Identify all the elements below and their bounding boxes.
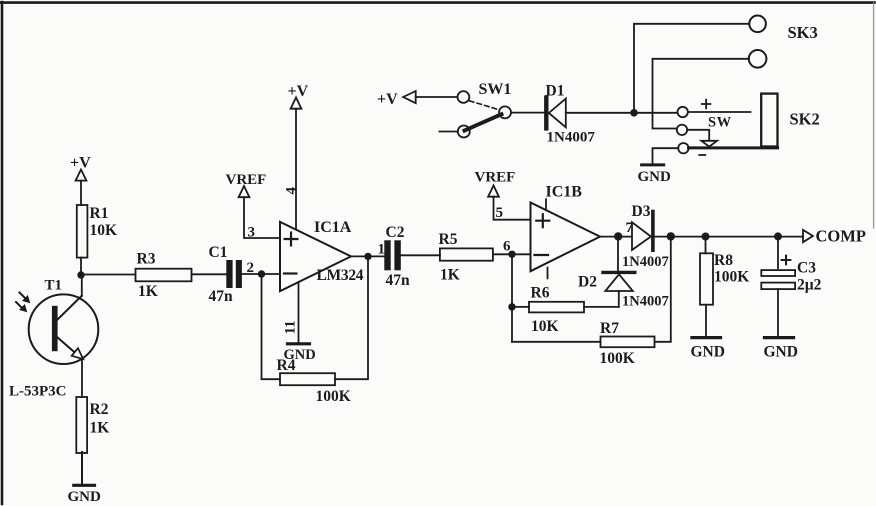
resistor R8 (700, 252, 749, 305)
ground (IC1A pin 11) (284, 344, 316, 363)
svg-text:1K: 1K (440, 267, 460, 284)
svg-text:2µ2: 2µ2 (797, 277, 822, 294)
svg-text:R7: R7 (600, 320, 619, 337)
svg-text:IC1B: IC1B (546, 184, 583, 201)
wire feedback down from pin2 node (262, 274, 281, 379)
plus pin label (702, 100, 711, 109)
node R8 junction (702, 233, 710, 241)
wire +V to SW1 (416, 96, 458, 98)
minus pin label (699, 154, 705, 156)
wire pin6 node down (511, 254, 513, 341)
node IC1A output (364, 253, 371, 260)
svg-text:R4: R4 (277, 357, 296, 374)
node junction (R1/R3/T1) (77, 271, 84, 278)
svg-text:LM324: LM324 (317, 267, 364, 284)
wire C1 to op-amp pin 2 (242, 273, 280, 275)
wire to R6 (512, 306, 529, 308)
capacitor C2 (384, 224, 410, 289)
connector SK2 body (761, 94, 777, 147)
diode D1 (546, 83, 596, 146)
capacitor C3 (polarized) (761, 256, 821, 294)
resistor R2 (76, 397, 109, 453)
wire D2 to R6 (618, 291, 620, 307)
wire VREF to pin 3 (244, 197, 280, 238)
svg-text:T1: T1 (45, 278, 63, 294)
wire stub SW1 lower contact (439, 131, 457, 133)
svg-text:GND: GND (638, 169, 672, 185)
resistor R6 (529, 285, 584, 336)
wire R2 to ground (81, 452, 83, 484)
svg-text:C3: C3 (797, 260, 816, 277)
resistor R5 (439, 231, 493, 284)
wire R7 up to output line (655, 237, 671, 342)
resistor R4 (277, 357, 351, 405)
svg-text:SK3: SK3 (788, 23, 818, 42)
transistor T1 (phototransistor) (29, 278, 99, 365)
contact plus pin circle (678, 107, 688, 117)
wire SW pin (687, 130, 709, 141)
svg-text:L-53P3C: L-53P3C (9, 384, 67, 400)
wire minus pin to ground (653, 148, 679, 163)
wire output to C2 (351, 255, 384, 257)
contact minus pin circle (678, 143, 688, 153)
svg-text:SW: SW (708, 115, 732, 131)
diode D2 (578, 272, 669, 309)
svg-text:5: 5 (496, 205, 504, 221)
connector SK3 pin 1 (749, 15, 766, 32)
svg-text:100K: 100K (600, 350, 635, 367)
svg-text:SK2: SK2 (790, 110, 820, 129)
svg-text:R3: R3 (137, 251, 156, 268)
wire SK3 pin2 to SK2 SW pin (653, 59, 749, 129)
svg-text:R5: R5 (439, 231, 458, 248)
op-amp U2 IC1B (531, 184, 601, 279)
node R6 junction (508, 303, 515, 310)
svg-text:100K: 100K (714, 269, 749, 286)
ground (C3) (764, 338, 798, 361)
wire R5 to pin 6 (493, 253, 531, 255)
wire R8 to ground (705, 305, 707, 337)
svg-text:C1: C1 (209, 244, 228, 261)
wire R3 to C1 (192, 273, 227, 275)
svg-text:GND: GND (68, 489, 102, 505)
svg-text:C2: C2 (386, 224, 405, 241)
node C3 junction (774, 232, 782, 240)
wire R6 to D2 (584, 306, 619, 308)
node pin2 junction (258, 270, 265, 277)
svg-text:3: 3 (248, 225, 256, 241)
svg-text:VREF: VREF (475, 170, 516, 186)
wire D3 to node (653, 236, 670, 238)
svg-text:COMP: COMP (816, 227, 866, 246)
svg-text:D3: D3 (632, 203, 651, 220)
svg-text:D2: D2 (578, 274, 597, 291)
node IC1B output (614, 232, 622, 240)
wire minus line (bold) to SK2 (689, 146, 778, 149)
border frame right (faint) (873, 3, 875, 228)
switch SW1 (458, 81, 512, 138)
svg-text:R2: R2 (90, 401, 109, 418)
capacitor C1 (209, 244, 242, 305)
svg-text:GND: GND (691, 344, 725, 361)
wire output node to D2 (617, 237, 619, 271)
wire pin 11 (298, 282, 300, 342)
svg-text:R1: R1 (90, 205, 109, 222)
wire C2 to R5 (401, 254, 440, 256)
svg-text:47n: 47n (386, 272, 411, 289)
border frame left (1, 2, 4, 504)
wire C3 to ground (777, 289, 779, 336)
wire node to R3 (81, 274, 136, 276)
svg-text:SW1: SW1 (479, 81, 512, 98)
ground (R8) (691, 338, 725, 361)
plug tip marker (open triangle) (701, 141, 717, 147)
node COMP output (803, 227, 866, 246)
resistor R7 (600, 320, 655, 367)
node +V (left supply) (70, 155, 91, 181)
svg-text:GND: GND (764, 344, 798, 361)
wire VREF to pin 5 (494, 197, 531, 220)
node VREF (IC1B) (475, 170, 516, 197)
node after D3 (667, 232, 675, 240)
svg-text:1: 1 (378, 242, 386, 258)
op-amp U1 IC1A (280, 219, 364, 291)
contact SW pin circle (677, 125, 687, 135)
svg-text:IC1A: IC1A (314, 219, 352, 236)
svg-text:11: 11 (283, 320, 299, 334)
svg-text:R8: R8 (714, 252, 733, 269)
svg-text:R6: R6 (531, 285, 550, 302)
wire plus pin to SK2 (688, 111, 751, 113)
resistor R3 (136, 251, 192, 301)
node +V (switch feed) (377, 91, 416, 108)
svg-text:+V: +V (377, 91, 398, 108)
wire node to C3 (777, 237, 779, 269)
svg-text:10K: 10K (531, 318, 559, 335)
wire R4 to output node (335, 256, 368, 379)
svg-text:4: 4 (284, 187, 300, 195)
ground (SK2) (638, 165, 672, 185)
wire R1 to node (80, 258, 82, 275)
svg-text:D1: D1 (546, 83, 565, 100)
node VREF (IC1A) (226, 172, 267, 197)
wire SW1 pole to D1 (511, 112, 544, 114)
connector SK3 pin 2 (749, 50, 767, 68)
wire IC1B output (600, 236, 631, 238)
node +V (IC1A pin 4) (288, 83, 309, 109)
wire node up to SK3 (634, 24, 749, 113)
svg-text:+V: +V (288, 83, 309, 100)
svg-text:VREF: VREF (226, 172, 267, 188)
svg-text:10K: 10K (90, 222, 118, 239)
wire main output line (670, 236, 803, 238)
diode D3 (622, 203, 669, 270)
svg-text:1N4007: 1N4007 (622, 294, 669, 310)
wire D1 to SK2 plus (566, 112, 678, 114)
svg-text:100K: 100K (316, 388, 351, 405)
wire T1 emitter to R2 (81, 359, 83, 397)
wire node to R8 (705, 237, 707, 254)
wire node to T1 collector (81, 275, 83, 296)
svg-text:1N4007: 1N4007 (547, 130, 596, 146)
light arrows into T1 (16, 293, 30, 312)
wire pin 4 (295, 109, 297, 230)
wire to R7 (512, 341, 601, 343)
node pin 6 junction (508, 251, 515, 258)
node D1/SK3 junction (630, 109, 638, 117)
resistor R1 (77, 205, 117, 258)
wire +V to R1 (80, 181, 82, 205)
border frame top (1, 1, 875, 4)
svg-text:1N4007: 1N4007 (622, 254, 669, 270)
svg-text:1K: 1K (138, 283, 158, 300)
svg-text:1K: 1K (90, 420, 110, 437)
ground (left) (68, 485, 102, 505)
svg-text:47n: 47n (209, 288, 234, 305)
